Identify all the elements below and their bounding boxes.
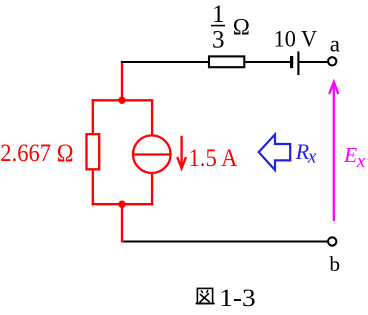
value label: 10 V [274,27,318,52]
wire: red vertical from bottom node down to bottom wire [121,204,123,242]
svg-text:b: b [329,252,340,276]
svg-text:x: x [307,147,317,168]
svg-text:1-3: 1-3 [219,285,255,310]
wire: right branch lower (red) [151,174,153,206]
caption text 1-3 [219,285,255,312]
wire: battery to terminal a [299,61,328,63]
value label: 1.5 A [189,143,239,172]
red parallel circuit: bottom rail wire [92,203,154,205]
svg-text:Ω: Ω [233,15,250,40]
junction dot (bottom node) [118,201,125,208]
wire: red vertical from top node down to parallel-circuit top rail [121,62,123,101]
svg-text:1.5 A: 1.5 A [189,143,239,172]
terminal b (open circle) [328,237,336,245]
caption kanji 図 (drawn) [196,288,215,303]
svg-text:x: x [356,151,366,172]
red parallel circuit: top rail wire [92,99,154,101]
svg-text:E: E [343,143,357,167]
wire: top black horizontal from node to resistor [121,61,209,63]
battery V1: short thick negative plate [290,56,293,68]
current source 1.5 A (red circle with horizontal bar) [133,135,171,173]
value label: fraction 1/3 Ω [211,1,250,54]
voltage arrow Ex (magenta, pointing up from b to a) [329,82,338,221]
current direction arrow (red, pointing down) [177,136,186,169]
wire: left branch lower (red) [92,171,94,206]
svg-text:3: 3 [212,27,225,54]
wire: right branch upper (red) [151,99,153,134]
svg-text:a: a [330,32,340,57]
node label b [329,252,340,276]
block arrow Rx (blue outline, pointing left) [259,134,291,170]
label Rx [295,139,317,168]
svg-text:1: 1 [212,1,225,28]
battery V1: long thin positive plate [297,51,299,75]
svg-text:2.667 Ω: 2.667 Ω [0,138,73,167]
wire: left branch upper (red) [92,99,94,133]
terminal a (open circle) [328,57,336,65]
wire: bottom black horizontal to terminal b [123,240,328,242]
svg-text:10 V: 10 V [274,27,318,52]
resistor 1/3 ohm (top, black rectangle) [209,56,244,67]
wire: resistor to battery [245,61,290,63]
label Ex [343,143,366,172]
junction dot (top node) [118,97,125,104]
node label a [330,32,340,57]
resistor 2.667 ohm (red rectangle) [87,134,100,169]
value label: 2.667 Ω [0,138,73,167]
